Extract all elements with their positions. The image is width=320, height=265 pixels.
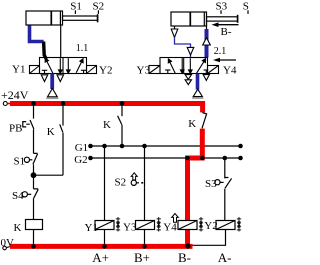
label B- <box>221 26 232 38</box>
wire S3 to Y2 coil <box>224 189 226 221</box>
tube valve 2.1 port 2 to cylinder B (blue pressurized) <box>205 29 209 58</box>
solenoid coil Y1 <box>95 221 114 230</box>
cylinder B piston <box>190 12 204 26</box>
wire S2 to Y3 coil <box>144 187 146 220</box>
label B+ <box>134 250 150 265</box>
label Y3 <box>137 65 151 77</box>
label 2.1 <box>214 46 227 57</box>
valve 1.1 exhaust port 3 <box>57 75 64 82</box>
solenoid Y2 <box>87 66 97 74</box>
override symbol Y2 <box>237 217 241 232</box>
air source valve 1.1 <box>46 88 58 98</box>
annotation arrow B- <box>212 22 239 27</box>
valve 1.1 right box flow 1-2 <box>76 59 83 73</box>
svg-text:B+: B+ <box>134 250 150 265</box>
node G1/Y1 <box>102 144 107 149</box>
label S4 <box>243 0 255 12</box>
node G2/S3 <box>223 156 228 161</box>
cylinder A piston rod <box>63 14 98 22</box>
label Y1 <box>12 64 25 76</box>
svg-text:S2: S2 <box>93 1 105 13</box>
label K G2 <box>188 118 196 130</box>
actuated arrow at Y4 <box>172 214 179 223</box>
valve 2.1 left box blocked port 5 <box>165 70 170 73</box>
label S2 <box>115 177 127 189</box>
solenoid coil Y2 <box>216 221 235 230</box>
override symbol Y4 <box>199 217 203 232</box>
limit switch contact S2 (NO) <box>131 177 144 187</box>
svg-text:1.1: 1.1 <box>76 43 89 54</box>
label G2 <box>74 154 87 166</box>
node G1 start <box>88 144 93 149</box>
label B- <box>178 250 191 265</box>
node G2/Y4 <box>185 156 190 161</box>
label Y1 coil <box>85 222 98 234</box>
label S1 <box>14 155 26 167</box>
svg-text:Y3: Y3 <box>137 65 151 77</box>
wire G1 to S2 <box>144 146 146 177</box>
tube cylinder A left port (blue pressurized) <box>30 26 44 42</box>
wire rail to K hold contact <box>62 106 64 126</box>
svg-text:Y4: Y4 <box>223 65 237 77</box>
valve 1.1 left box blocked port 5 <box>42 70 47 73</box>
svg-text:S2: S2 <box>115 177 127 189</box>
bus G2 <box>91 157 241 159</box>
wire G1 to Y1 coil <box>104 146 106 221</box>
label Y3 coil <box>123 222 137 234</box>
live red path G2 to Y4 <box>188 158 205 221</box>
label S3 <box>205 178 217 190</box>
wire Y3 to 0V <box>144 230 146 247</box>
svg-text:K: K <box>47 126 55 138</box>
flow arrow on tube to valve 2.1 <box>187 47 194 55</box>
relay contact K holding (NO) <box>60 124 63 132</box>
svg-text:2.1: 2.1 <box>214 46 227 57</box>
valve 1.1 left box flow 1-4 <box>45 58 53 73</box>
solenoid Y3 <box>149 66 160 74</box>
override symbol Y3 <box>157 217 161 232</box>
node G2 end <box>238 156 243 161</box>
wire Y1 to 0V <box>104 230 106 247</box>
node rail/K hold <box>61 101 66 106</box>
label +24V <box>1 88 29 102</box>
svg-text:Y1: Y1 <box>12 64 25 76</box>
valve 1.1 right box blocked port 3 <box>81 70 86 73</box>
label K coil <box>14 222 22 234</box>
node K coil/0V <box>31 244 36 249</box>
node Y4/0V <box>185 243 190 248</box>
svg-text:S3: S3 <box>216 0 228 12</box>
label S3 <box>216 0 228 12</box>
relay contact K to G2 (closed) <box>202 113 207 129</box>
0V terminal <box>3 246 10 250</box>
svg-text:B-: B- <box>178 250 191 265</box>
+24V rail (live, red) <box>10 104 203 113</box>
annotation arrow to Y4 <box>213 58 236 63</box>
node hold join <box>31 173 36 178</box>
svg-text:K: K <box>103 119 111 131</box>
valve 1.1 body <box>40 58 87 74</box>
sensor tick S1 <box>74 10 76 14</box>
solenoid coil Y4 <box>178 221 197 230</box>
svg-text:Y3: Y3 <box>123 222 137 234</box>
cylinder B body <box>171 12 207 26</box>
label K G1 <box>103 119 111 131</box>
tube into valve 1.1 port 4 (dark) <box>44 42 47 60</box>
live red path Y4 to 0V <box>185 230 190 247</box>
sensor tick S4 <box>247 10 249 14</box>
svg-text:K: K <box>188 118 196 130</box>
wire K hold down <box>34 133 64 175</box>
bus G1 <box>91 145 241 147</box>
label K hold <box>47 126 55 138</box>
air source valve 2.1 <box>192 89 203 98</box>
node Y3/0V <box>142 244 147 249</box>
sensor tick S2 <box>97 10 99 14</box>
valve 2.1 body <box>160 58 208 74</box>
cylinder B piston rod <box>207 15 238 23</box>
svg-text:A-: A- <box>218 250 232 265</box>
actuated arrow at S2 <box>131 173 137 180</box>
wire S4 to relay coil K <box>33 198 35 219</box>
node rail/K G1 feed <box>120 101 125 106</box>
valve 2.1 left box flow 2-3 <box>180 58 184 73</box>
valve 2.1 right box blocked port 3 <box>204 70 209 73</box>
svg-text:+24V: +24V <box>1 88 29 102</box>
node G2 start <box>88 156 93 161</box>
label 1.1 <box>76 43 89 54</box>
wire G2 to S3 <box>224 158 226 178</box>
valve 2.1 right box flow 1-2 <box>197 59 206 74</box>
limit switch contact S1 (NO) <box>24 153 37 164</box>
flow arrow below cylinder B left port <box>171 29 178 37</box>
wire S1 to S4 <box>33 165 35 189</box>
tube cylinder B left port to valve 2.1 port 4 (thin blue) <box>175 37 191 57</box>
+24V supply terminal <box>3 102 10 106</box>
solenoid Y1 <box>30 66 40 74</box>
svg-text:B-: B- <box>221 26 232 38</box>
supply tube valve 1.1 (blue) <box>50 74 54 90</box>
node G1/S2 <box>142 144 147 149</box>
wire rail to K contact G1 <box>121 106 123 116</box>
cylinder B port stubs <box>175 21 207 29</box>
svg-text:Y1: Y1 <box>85 222 98 234</box>
svg-text:G2: G2 <box>74 154 87 166</box>
wire rail to PB <box>33 106 35 119</box>
wire coil K to 0V <box>33 230 35 247</box>
node G2/K <box>200 156 205 161</box>
node G1 end <box>238 144 243 149</box>
label S2 <box>93 1 105 13</box>
svg-text:S4: S4 <box>12 190 24 202</box>
label A+ <box>92 250 109 265</box>
node Y1/0V <box>102 244 107 249</box>
wire PB to S1 <box>33 129 35 153</box>
limit switch contact S4 (NO) <box>22 189 38 198</box>
wire K contact to G1 <box>121 125 123 146</box>
live red path K contact branch <box>200 129 205 158</box>
cylinder A port stubs <box>30 25 61 58</box>
svg-text:G1: G1 <box>75 142 88 154</box>
valve 1.1 exhaust port 5 <box>41 75 48 82</box>
svg-text:Y2: Y2 <box>99 65 112 77</box>
cylinder A body <box>26 11 63 25</box>
0V rail (live, red) <box>10 244 193 249</box>
node rail/PB <box>31 101 36 106</box>
label Y2 coil <box>204 220 217 232</box>
svg-text:S3: S3 <box>205 178 217 190</box>
cylinder A piston <box>51 11 60 25</box>
svg-text:S1: S1 <box>70 1 82 13</box>
svg-text:Y2: Y2 <box>204 220 217 232</box>
svg-text:Y4: Y4 <box>163 221 177 233</box>
relay contact K to G1 (NO) <box>118 116 122 125</box>
label Y4 <box>223 65 237 77</box>
svg-text:PB: PB <box>9 123 22 135</box>
valve 2.1 exhaust port 5 flow arrows <box>185 75 191 85</box>
valve 2.1 exhaust port 3 <box>203 75 209 81</box>
valve 2.1 left box flow 1-4 <box>168 59 175 73</box>
label PB <box>9 123 22 135</box>
valve 1.1 right box flow 4-5 <box>67 58 71 73</box>
valve 2.1 right box flow 4-5 <box>189 58 193 73</box>
svg-text:K: K <box>14 222 22 234</box>
label A- <box>218 250 232 265</box>
label Y2 <box>99 65 112 77</box>
node G1/K <box>120 144 125 149</box>
flow arrow up on pressurized tube <box>203 38 211 45</box>
label 0V <box>1 237 15 249</box>
sensor tick S3 <box>220 10 222 14</box>
solenoid Y4 <box>208 66 219 74</box>
svg-text:S4: S4 <box>243 0 249 12</box>
svg-text:A+: A+ <box>92 250 109 265</box>
pushbutton PB (NO) <box>23 120 34 129</box>
label Y4 coil <box>163 221 177 233</box>
supply tube valve 2.1 (blue) <box>196 74 200 90</box>
override symbol Y1 <box>116 217 120 232</box>
wire Y2 return to 0V node <box>188 230 226 246</box>
label S4 <box>12 190 24 202</box>
relay coil K <box>26 220 43 230</box>
limit switch contact S3 (NO) <box>215 178 232 189</box>
svg-text:S1: S1 <box>14 155 26 167</box>
label G1 <box>75 142 88 154</box>
valve 1.1 left box flow 2-3 <box>59 58 63 73</box>
solenoid coil Y3 <box>136 221 155 230</box>
label S1 <box>70 1 82 13</box>
